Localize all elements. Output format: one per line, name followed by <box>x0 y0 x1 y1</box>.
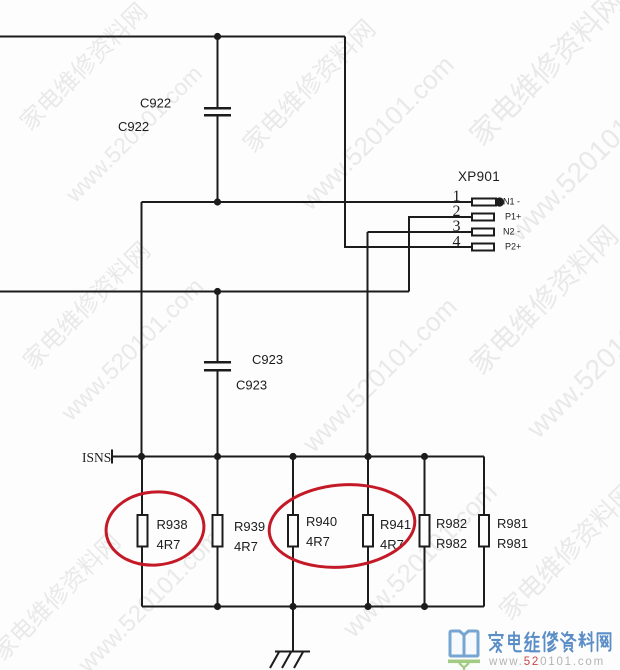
svg-text:ISNS: ISNS <box>82 450 111 465</box>
resistor R940 body <box>288 515 298 547</box>
svg-text:4R7: 4R7 <box>234 539 258 554</box>
pin1 terminal dot <box>495 197 504 206</box>
resistor R981 body <box>479 515 489 547</box>
svg-text:R981: R981 <box>497 516 528 531</box>
logo text 家电维修资料网 drawn as vector strokes <box>489 632 611 652</box>
ISNS tick <box>111 450 113 464</box>
wire pin3 vertical to ISNS bus <box>367 232 369 457</box>
wire net1 top horizontal <box>0 36 345 38</box>
svg-text:R981: R981 <box>497 536 528 551</box>
resistor R941 body <box>363 515 373 547</box>
connector XP901 pin 4 pad <box>472 244 494 251</box>
svg-text:C923: C923 <box>252 352 283 367</box>
wire C923 bottom stem <box>217 371 219 457</box>
capacitor C923 <box>204 361 231 372</box>
wire net2 left horizontal <box>0 291 409 293</box>
capacitor C922 <box>204 107 231 117</box>
wire ISNS bus <box>112 456 484 458</box>
connector XP901 pin 1 pad <box>472 199 496 206</box>
glyph 家 <box>489 632 503 652</box>
svg-text:4R7: 4R7 <box>306 534 330 549</box>
wire resistor R941 leads <box>367 457 369 607</box>
junction R982 bottom on ground bus <box>421 603 428 610</box>
resistor R938 body <box>138 515 148 547</box>
junction R982 top on ISNS bus <box>421 453 428 460</box>
wire net2 up to pin2 <box>409 217 472 292</box>
connector XP901 pin 2 pad <box>472 214 494 221</box>
wire ground stem <box>292 607 294 652</box>
svg-text:C923: C923 <box>236 378 267 393</box>
svg-text:N1 -: N1 - <box>503 197 520 207</box>
svg-text:4: 4 <box>453 234 461 251</box>
wire resistor R982 leads <box>424 457 426 607</box>
svg-text:R939: R939 <box>234 519 265 534</box>
svg-text:XP901: XP901 <box>458 169 500 184</box>
junction R941 top on ISNS bus <box>364 453 371 460</box>
highlight ellipse around R938 <box>103 488 207 569</box>
junction C922 top on net1 <box>214 33 221 40</box>
glyph 修 <box>543 632 558 651</box>
junction R939 top on ISNS bus <box>214 453 221 460</box>
wire bottom bus <box>142 606 484 608</box>
svg-text:4R7: 4R7 <box>157 537 181 552</box>
junction R938 top on ISNS bus <box>138 453 145 460</box>
svg-text:R982: R982 <box>436 536 467 551</box>
connector XP901 pin 3 pad <box>472 229 494 236</box>
svg-text:P1+: P1+ <box>505 212 521 222</box>
wire C922 top stem <box>217 37 219 108</box>
glyph 维 <box>525 633 540 652</box>
glyph 资 <box>561 632 576 651</box>
logo book icon <box>448 631 480 670</box>
watermark layer <box>10 0 154 137</box>
wire resistor R940 leads <box>292 457 294 607</box>
junction R941 bottom on ground bus <box>364 603 371 610</box>
glyph 电 <box>509 632 521 651</box>
wire resistor R939 leads <box>217 457 219 607</box>
wire left vertical pin1 to ISNS bus <box>141 202 143 457</box>
wire C923 top stem <box>217 292 219 362</box>
junction C922 bottom on pin1 wire <box>214 198 221 205</box>
glyph 料 <box>579 632 594 651</box>
wire resistor R981 leads <box>483 457 485 607</box>
svg-text:R938: R938 <box>157 517 188 532</box>
svg-text:4R7: 4R7 <box>380 537 404 552</box>
svg-text:R982: R982 <box>436 516 467 531</box>
svg-text:R941: R941 <box>380 517 411 532</box>
wire C922 bottom stem <box>217 116 219 202</box>
resistor R939 body <box>213 515 223 547</box>
wire resistor R938 leads <box>141 457 143 607</box>
junction R939 bottom on ground bus <box>214 603 221 610</box>
wire net1 right vertical drop to pin4 <box>345 37 472 248</box>
svg-text:P2+: P2+ <box>505 242 521 252</box>
resistor R982 body <box>420 515 430 547</box>
junction C923 top on net2 <box>214 288 221 295</box>
wire pin1 horizontal <box>142 201 473 203</box>
highlight ellipse around R940 R941 <box>266 479 419 573</box>
svg-text:C922: C922 <box>118 119 149 134</box>
svg-text:3: 3 <box>453 218 461 235</box>
ground symbol <box>270 652 310 669</box>
svg-text:R940: R940 <box>306 514 337 529</box>
junction R940 bottom / ground stem <box>289 603 296 610</box>
svg-text:N2 -: N2 - <box>503 227 520 237</box>
junction R940 top on ISNS bus <box>289 453 296 460</box>
svg-text:www.520101.com: www.520101.com <box>488 656 605 668</box>
wire pin3 horizontal <box>368 231 473 233</box>
svg-text:C922: C922 <box>140 96 171 111</box>
glyph 网 <box>598 633 611 650</box>
